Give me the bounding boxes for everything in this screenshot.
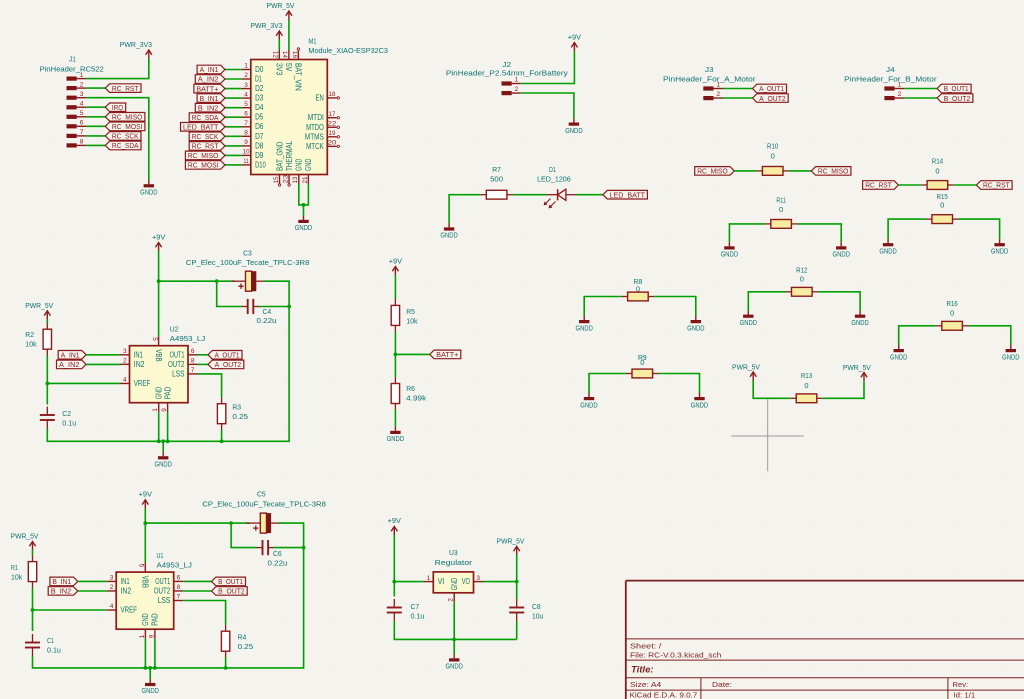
wire to RC_MISO	[225, 154, 241, 156]
global label B_IN1	[50, 577, 78, 586]
no-connect circle pin 15	[278, 184, 280, 186]
svg-text:R2: R2	[25, 330, 34, 339]
svg-text:GNDD: GNDD	[576, 323, 594, 332]
svg-text:R6: R6	[406, 384, 415, 393]
svg-text:RC_MISO: RC_MISO	[697, 167, 728, 176]
svg-text:VO: VO	[462, 577, 470, 586]
ground GNDD (R11 left)	[721, 242, 739, 258]
wire to RC_MOSI	[225, 164, 241, 166]
wire R15 left to GNDD	[888, 219, 926, 239]
ground GNDD (R15 left)	[879, 239, 897, 255]
M1 pin 2 D1	[241, 72, 262, 83]
svg-text:BAT_GND: BAT_GND	[275, 141, 284, 171]
svg-text:8: 8	[177, 584, 181, 591]
svg-text:C2: C2	[62, 409, 71, 418]
wire +9V to VBB and C5	[144, 508, 146, 562]
wire PWR_5V to R1	[32, 550, 34, 555]
junction U1 PAD	[153, 666, 157, 670]
junction U1 GND	[144, 666, 148, 670]
capacitor C7 0.1u	[387, 599, 425, 621]
svg-text:10: 10	[243, 149, 250, 156]
svg-text:RC_MISO: RC_MISO	[818, 167, 849, 176]
capacitor C4 0.22u	[242, 299, 277, 325]
svg-text:VBB: VBB	[154, 349, 163, 361]
svg-text:PWR_5V: PWR_5V	[732, 362, 760, 371]
wire C4 to right rail	[259, 306, 289, 308]
wire C7 to bottom rail	[394, 621, 516, 639]
svg-text:2: 2	[110, 584, 114, 591]
ground GNDD (U1)	[142, 679, 160, 695]
U2 pin 4 VREF	[120, 377, 150, 388]
svg-text:PinHeader_For_A_Motor: PinHeader_For_A_Motor	[663, 75, 756, 84]
M1 pin 3 D2	[241, 82, 264, 93]
svg-text:U3: U3	[449, 548, 458, 557]
svg-text:5: 5	[244, 101, 248, 108]
svg-text:2: 2	[123, 358, 127, 365]
no-connect circle pin 16	[297, 48, 299, 50]
svg-text:C5: C5	[257, 490, 266, 499]
wire to LED_BATT	[225, 126, 241, 128]
svg-text:R5: R5	[406, 307, 415, 316]
svg-text:7: 7	[191, 367, 195, 374]
svg-text:MTMS: MTMS	[305, 132, 324, 141]
global label A_IN1	[58, 351, 86, 360]
svg-text:C3: C3	[243, 248, 252, 257]
wire R2 to VREF junction	[46, 356, 48, 405]
svg-text:Sheet: /: Sheet: /	[630, 641, 662, 650]
svg-text:4: 4	[80, 101, 84, 108]
ground GNDD (R12 left)	[740, 311, 758, 327]
U1 pin 6 OUT1	[155, 575, 183, 586]
svg-text:1: 1	[898, 82, 902, 89]
U2 pin 1 GND	[152, 387, 163, 413]
svg-text:3V3: 3V3	[275, 63, 284, 76]
svg-text:3: 3	[123, 348, 127, 355]
svg-text:D7: D7	[255, 132, 264, 141]
svg-text:+9V: +9V	[389, 256, 402, 265]
svg-text:CP_Elec_100uF_Tecate_TPLC-3R8: CP_Elec_100uF_Tecate_TPLC-3R8	[186, 258, 310, 267]
svg-text:17: 17	[329, 111, 336, 118]
svg-text:R3: R3	[232, 403, 241, 412]
wire +9V to R5	[394, 275, 396, 299]
global label RC_MOSI	[105, 122, 145, 131]
global label A_IN2	[57, 360, 87, 369]
junction R1/VREF	[31, 608, 35, 612]
global label BATT+	[194, 84, 225, 93]
svg-text:LSS: LSS	[158, 596, 170, 605]
wire GNDD to R7	[449, 195, 480, 224]
svg-text:1: 1	[244, 63, 248, 70]
svg-text:D10: D10	[255, 160, 266, 169]
svg-text:R14: R14	[932, 157, 943, 166]
U2 pin 8 OUT2	[168, 358, 198, 369]
svg-text:B_OUT2: B_OUT2	[218, 587, 245, 596]
M1 pin 16 BAT_VIN	[291, 50, 303, 91]
U2 pin 6 OUT1	[170, 348, 198, 359]
U1 pin 1 GND	[139, 613, 150, 639]
svg-text:IN1: IN1	[134, 350, 143, 359]
wire R11 right to GNDD	[797, 224, 841, 242]
svg-text:2: 2	[898, 91, 902, 98]
svg-text:R10: R10	[767, 142, 778, 151]
svg-text:MTCK: MTCK	[306, 142, 324, 151]
svg-text:7: 7	[80, 129, 84, 136]
wire R1 to VREF junction	[32, 588, 34, 631]
wire to B_IN2	[225, 107, 241, 109]
svg-text:GNDD: GNDD	[851, 318, 869, 327]
svg-text:KiCad E.D.A. 9.0.7: KiCad E.D.A. 9.0.7	[630, 691, 698, 699]
cursor crosshair	[731, 399, 803, 471]
svg-text:5: 5	[138, 564, 145, 568]
wire D1 to LED_BATT	[576, 194, 603, 196]
svg-text:+9V: +9V	[568, 32, 581, 41]
global label RC_SCK	[105, 132, 141, 141]
svg-text:PWR_5V: PWR_5V	[25, 301, 53, 310]
svg-text:C1: C1	[47, 636, 54, 645]
svg-text:GNDD: GNDD	[142, 686, 160, 695]
wire RC_MISO to R10	[734, 170, 756, 172]
svg-text:GNDD: GNDD	[721, 250, 739, 259]
svg-text:+9V: +9V	[152, 232, 165, 241]
svg-text:14: 14	[281, 51, 288, 58]
junction +9V/C7	[392, 580, 396, 584]
svg-text:9: 9	[244, 139, 248, 146]
U2 pin 9 PAD	[161, 387, 172, 413]
svg-text:3: 3	[244, 82, 248, 89]
svg-text:GNDD: GNDD	[1002, 352, 1020, 361]
no-connect circle pin 18	[337, 97, 339, 99]
ground GNDD (divider)	[387, 427, 405, 443]
svg-text:D3: D3	[255, 94, 264, 103]
diode D1 LED_1206	[537, 165, 576, 208]
ground GNDD (R12 right)	[851, 311, 869, 327]
svg-text:8: 8	[191, 358, 195, 365]
global label A_IN1	[197, 65, 225, 74]
svg-text:1: 1	[152, 408, 159, 412]
resistor R7 500	[480, 165, 513, 199]
svg-text:OUT1: OUT1	[170, 350, 185, 359]
op-amp U2 A4953_LJ	[130, 325, 206, 403]
svg-text:8: 8	[80, 139, 84, 146]
U2 pin 2 IN2	[120, 358, 145, 369]
M1 pin 21 GND	[302, 158, 313, 184]
svg-text:BATT+: BATT+	[436, 350, 459, 359]
svg-text:21: 21	[302, 176, 309, 183]
global label RC_SDA	[189, 113, 225, 122]
svg-text:1: 1	[716, 82, 720, 89]
svg-text:J4: J4	[886, 65, 895, 74]
svg-text:IN2: IN2	[134, 360, 145, 369]
svg-text:MTDI: MTDI	[308, 113, 324, 122]
resistor R1 10k	[11, 555, 37, 588]
svg-text:PWR_3V3: PWR_3V3	[250, 21, 282, 30]
wire J2 pin2 to GNDD	[521, 93, 574, 119]
wire to A_IN2	[225, 78, 241, 80]
ground GNDD (R16 right)	[1002, 345, 1020, 361]
wire R12 right to GNDD	[818, 292, 860, 311]
svg-text:OUT2: OUT2	[168, 360, 185, 369]
svg-text:A_OUT2: A_OUT2	[215, 360, 242, 369]
svg-text:R16: R16	[946, 299, 957, 308]
svg-text:0.25: 0.25	[238, 642, 254, 651]
svg-text:3: 3	[476, 575, 480, 582]
svg-text:B_OUT1: B_OUT1	[218, 577, 243, 586]
wire J3 pin2	[723, 97, 753, 99]
capacitor C2 0.1u	[40, 407, 76, 429]
wire C4 branch	[217, 281, 243, 306]
ground GNDD (R16 left)	[890, 345, 908, 361]
wire J3 pin1	[723, 88, 753, 90]
svg-text:GNDD: GNDD	[440, 231, 458, 240]
junction U3 GND/rail	[452, 638, 456, 642]
svg-text:B_OUT1: B_OUT1	[944, 84, 969, 93]
wire M1 GND pins to GNDD	[299, 184, 309, 205]
svg-text:Title:: Title:	[631, 665, 654, 676]
M1 pin 4 D3	[241, 91, 264, 102]
svg-text:9: 9	[148, 634, 155, 638]
svg-text:GNDD: GNDD	[155, 460, 173, 469]
svg-text:PinHeader_P2.54mm_ForBattery: PinHeader_P2.54mm_ForBattery	[446, 69, 568, 78]
wire to RC_RST	[225, 145, 241, 147]
wire to U3 VI	[394, 581, 424, 583]
svg-text:D0: D0	[255, 65, 264, 74]
wire R13 right to PWR_5V	[823, 381, 864, 398]
svg-text:5: 5	[80, 110, 84, 117]
svg-text:9: 9	[161, 408, 168, 412]
svg-text:RC_MOSI: RC_MOSI	[112, 122, 142, 131]
svg-text:A4953_LJ: A4953_LJ	[157, 561, 193, 570]
global label RC_SCK	[189, 132, 225, 141]
wire R5 to R6	[394, 332, 396, 378]
svg-text:RC_SDA: RC_SDA	[192, 113, 219, 122]
junction C4/right rail	[287, 305, 291, 309]
svg-text:RC_SDA: RC_SDA	[112, 141, 139, 150]
svg-text:0.1u: 0.1u	[411, 612, 425, 621]
wire J2 pin1 to +9V	[521, 51, 574, 83]
wire rail to GNDD	[162, 441, 164, 452]
wire to RC_SDA	[225, 116, 241, 118]
wire R13 left to PWR_5V	[753, 381, 790, 399]
wire J1 pin2	[86, 87, 105, 89]
global label RC_SDA	[105, 141, 141, 150]
svg-text:GNDD: GNDD	[565, 126, 583, 135]
svg-text:0.1u: 0.1u	[47, 646, 61, 655]
wire U2 OUT1 to A_OUT1	[198, 354, 209, 356]
svg-text:0: 0	[950, 309, 954, 318]
svg-text:J1: J1	[69, 55, 76, 64]
svg-text:+9V: +9V	[388, 516, 401, 525]
svg-text:2: 2	[515, 86, 519, 93]
svg-text:GNDD: GNDD	[446, 662, 464, 671]
wire VO to PWR_5V and C8	[483, 555, 517, 582]
resistor R3 0.25	[217, 397, 248, 430]
wire B_IN2 to U1	[78, 590, 107, 592]
svg-text:3: 3	[110, 575, 114, 582]
svg-text:4: 4	[244, 91, 248, 98]
svg-text:OUT2: OUT2	[154, 587, 171, 596]
U3 pin 1 VI	[424, 575, 444, 586]
wire J1 pin3 to GNDD	[86, 98, 149, 181]
svg-text:5: 5	[151, 337, 158, 341]
svg-text:PinHeader_RC522: PinHeader_RC522	[40, 65, 104, 74]
svg-text:C4: C4	[263, 307, 272, 316]
svg-text:2: 2	[448, 598, 455, 602]
svg-text:RC_RST: RC_RST	[983, 181, 1010, 190]
svg-text:6: 6	[80, 120, 84, 127]
svg-text:Size: A4: Size: A4	[630, 680, 661, 689]
svg-text:R12: R12	[796, 266, 807, 275]
global label B_OUT1	[937, 84, 971, 93]
U1 pin 3 IN1	[107, 575, 130, 586]
ground GNDD (J2)	[565, 119, 583, 135]
svg-text:6: 6	[191, 348, 195, 355]
global label RC_MISO (right of R10)	[811, 167, 851, 176]
wire to RC_SCK	[225, 135, 241, 137]
svg-text:GNDD: GNDD	[580, 400, 598, 409]
svg-text:GNDD: GNDD	[691, 400, 709, 409]
op-amp U1 A4953_LJ	[116, 551, 192, 629]
wire R12 left to GNDD	[748, 292, 785, 311]
wire A_IN2 to U2	[86, 363, 120, 365]
wire J4 pin1	[904, 88, 937, 90]
svg-text:VREF: VREF	[134, 379, 151, 388]
global label B_OUT1	[212, 577, 246, 586]
svg-text:A_IN1: A_IN1	[61, 351, 80, 360]
svg-text:10k: 10k	[406, 317, 418, 326]
svg-text:D1: D1	[255, 75, 262, 84]
resistor R2 10k	[25, 323, 51, 356]
svg-text:23: 23	[282, 174, 289, 183]
power symbol +9V (U2)	[152, 232, 165, 251]
junction C6 branch	[229, 521, 233, 525]
ground GNDD (R15 right)	[991, 239, 1009, 255]
wire R8 left to GNDD	[584, 297, 621, 317]
svg-text:4.99k: 4.99k	[406, 394, 426, 403]
global label RC_MOSI	[185, 161, 225, 170]
svg-text:C7: C7	[411, 602, 420, 611]
global label B_IN2	[48, 587, 78, 596]
global label A_OUT2	[208, 360, 244, 369]
wire rail to GNDD (U1)	[149, 668, 151, 679]
svg-text:GNDD: GNDD	[140, 188, 158, 197]
ground GNDD (J1)	[140, 180, 158, 196]
wire R4 to rail	[225, 658, 227, 668]
M1 pin 18 EN	[316, 91, 337, 102]
svg-text:GNDD: GNDD	[687, 323, 705, 332]
wire C5 to right rail	[150, 523, 303, 668]
svg-text:18: 18	[329, 91, 336, 98]
svg-text:File: RC-V.0.3.kicad_sch: File: RC-V.0.3.kicad_sch	[630, 651, 721, 660]
global label RC_RST (left of R14)	[863, 181, 899, 190]
wire C6 branch	[231, 523, 257, 548]
svg-text:VREF: VREF	[121, 606, 138, 615]
svg-text:0: 0	[800, 274, 804, 283]
wire J1 pin1 to PWR_3V3	[86, 59, 149, 79]
M1 pin 13 GND	[292, 158, 303, 184]
svg-text:0.1u: 0.1u	[62, 419, 76, 428]
svg-text:BAT_VIN: BAT_VIN	[294, 63, 303, 91]
M1 pin 14 5V	[281, 50, 293, 72]
svg-text:A_IN2: A_IN2	[198, 75, 219, 84]
svg-text:LED_BATT: LED_BATT	[183, 122, 219, 131]
svg-text:GNDD: GNDD	[890, 352, 908, 361]
wire U2 OUT2 to A_OUT2	[198, 363, 209, 365]
resistor R6 4.99k	[391, 377, 426, 410]
svg-text:D5: D5	[255, 113, 264, 122]
U1 pin 8 OUT2	[154, 584, 184, 595]
junction R2/VREF	[45, 382, 49, 386]
resistor R15 0	[926, 192, 959, 224]
svg-text:R7: R7	[492, 165, 501, 174]
svg-text:4: 4	[123, 377, 127, 384]
svg-text:OUT1: OUT1	[155, 577, 170, 586]
svg-text:PinHeader_For_B_Motor: PinHeader_For_B_Motor	[844, 75, 937, 84]
wire RC_RST to R14	[898, 184, 921, 186]
resistor R10 0	[756, 142, 789, 176]
svg-text:Regulator: Regulator	[435, 558, 473, 567]
wire J1 pin7	[86, 135, 105, 137]
wire R7 to D1	[513, 194, 547, 196]
junction C4 branch	[215, 279, 219, 283]
svg-text:RC_RST: RC_RST	[112, 84, 139, 93]
wire U1 OUT1 to B_OUT1	[183, 580, 211, 582]
resistor R16 0	[936, 299, 969, 330]
ground GNDD (U3)	[446, 654, 464, 670]
svg-text:1: 1	[515, 77, 519, 84]
wire U2 LSS to R3	[198, 374, 222, 398]
svg-text:C8: C8	[532, 602, 541, 611]
svg-text:+9V: +9V	[139, 490, 152, 499]
svg-text:Date:: Date:	[712, 680, 732, 689]
wire U1 LSS to R4	[183, 601, 225, 625]
svg-text:4: 4	[110, 603, 114, 610]
svg-text:1: 1	[139, 634, 146, 638]
wire C8 to rail	[516, 621, 518, 639]
svg-text:RC_MISO: RC_MISO	[188, 151, 219, 160]
global label A_OUT1	[753, 84, 787, 93]
title block frame	[626, 581, 1024, 699]
svg-text:C6: C6	[273, 549, 282, 558]
wire to BATT+	[225, 88, 241, 90]
svg-text:6: 6	[244, 110, 248, 117]
svg-text:PWR_5V: PWR_5V	[843, 363, 871, 372]
wire A_IN1 to U2	[86, 354, 120, 356]
svg-text:B_IN2: B_IN2	[198, 103, 219, 112]
svg-text:20: 20	[328, 140, 337, 147]
svg-text:D6: D6	[255, 122, 264, 131]
svg-text:RC_MISO: RC_MISO	[112, 113, 143, 122]
svg-text:10u: 10u	[532, 612, 543, 621]
resistor R11 0	[765, 195, 798, 228]
svg-text:5V: 5V	[284, 63, 293, 72]
svg-text:GNDD: GNDD	[991, 246, 1009, 255]
svg-text:0.22u: 0.22u	[257, 316, 277, 325]
U3 pin 3 VO	[462, 575, 483, 586]
svg-text:B_OUT2: B_OUT2	[944, 94, 971, 103]
wire +9V to VI	[393, 535, 395, 596]
wire U2 PAD to rail	[167, 412, 169, 441]
global label B_IN1	[197, 94, 225, 103]
power symbol +9V (U3)	[388, 516, 401, 535]
wire to A_IN1	[225, 69, 241, 71]
svg-text:PWR_5V: PWR_5V	[497, 537, 525, 546]
svg-text:7: 7	[177, 594, 181, 601]
svg-text:2: 2	[716, 91, 720, 98]
capacitor C5 CP_Elec_100uF_Tecate_TPLC-3R8	[202, 490, 326, 534]
svg-text:A_OUT1: A_OUT1	[759, 84, 784, 93]
power symbol PWR_3V3 (M1)	[250, 21, 282, 39]
svg-text:RC_SCK: RC_SCK	[112, 132, 139, 141]
